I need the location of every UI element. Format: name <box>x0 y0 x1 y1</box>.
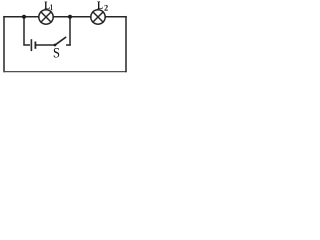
lamp L2 <box>91 10 105 24</box>
wire left side <box>3 17 5 72</box>
battery cell <box>31 40 35 50</box>
label L2 <box>97 2 107 11</box>
switch fixed contact stub <box>67 44 70 46</box>
label S <box>54 48 59 58</box>
wire top-right segment <box>105 16 126 18</box>
node A junction dot <box>22 15 26 19</box>
wire top-left segment <box>4 16 39 18</box>
switch pivot dot <box>54 44 57 47</box>
node B junction dot <box>68 15 72 19</box>
wire branch left vertical <box>24 17 29 45</box>
wire branch right vertical <box>69 17 71 45</box>
wire bottom <box>4 71 126 73</box>
wire between L1 and L2 <box>53 16 91 18</box>
wire right side <box>125 17 127 72</box>
lamp L1 <box>39 10 53 24</box>
wire battery to switch <box>35 44 54 46</box>
switch S blade <box>55 37 66 45</box>
label L1 <box>44 2 52 10</box>
